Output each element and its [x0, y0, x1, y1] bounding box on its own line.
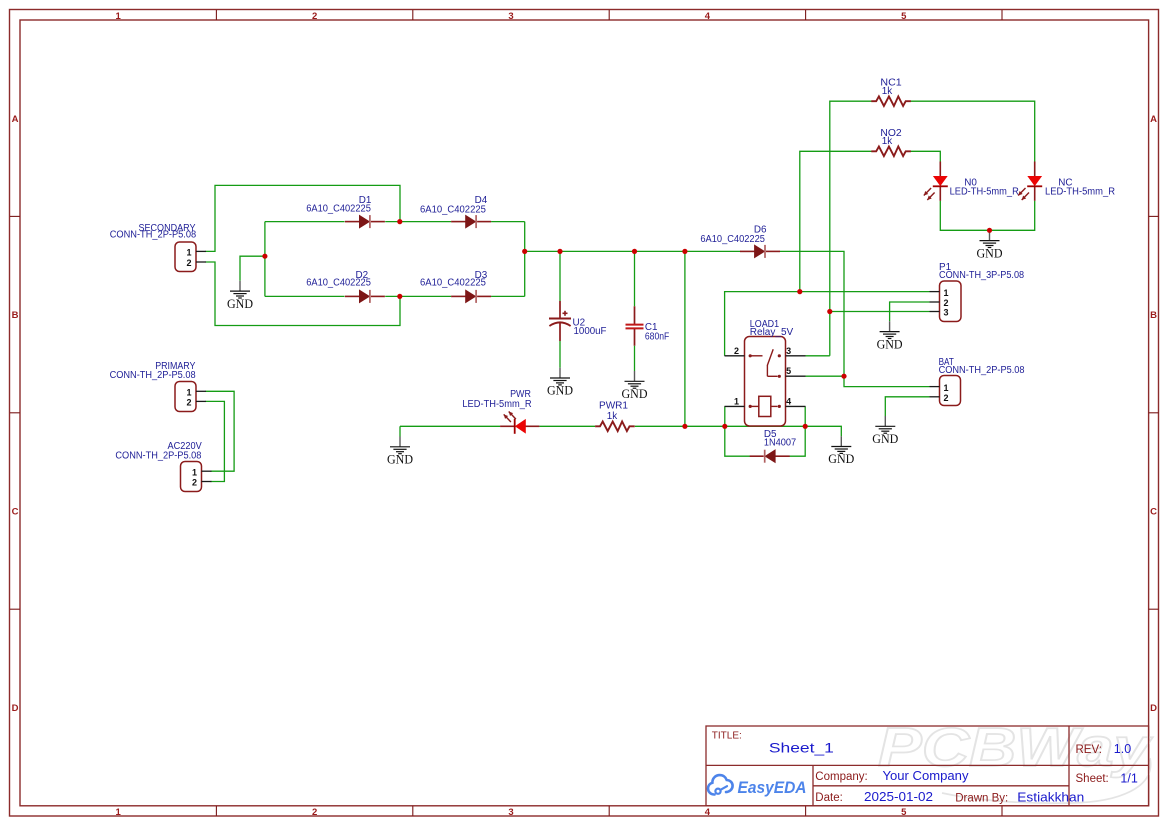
svg-text:C: C — [12, 507, 19, 518]
svg-text:Your Company: Your Company — [883, 769, 970, 783]
svg-text:LED-TH-5mm_R: LED-TH-5mm_R — [950, 187, 1019, 198]
svg-text:B: B — [1150, 310, 1157, 321]
svg-text:1000uF: 1000uF — [574, 326, 607, 337]
svg-text:5: 5 — [786, 366, 791, 376]
svg-text:2: 2 — [186, 258, 191, 268]
svg-text:2: 2 — [943, 298, 948, 308]
svg-text:REV:: REV: — [1076, 744, 1102, 756]
svg-text:GND: GND — [828, 451, 854, 466]
svg-text:1k: 1k — [607, 411, 617, 422]
svg-text:GND: GND — [227, 296, 253, 311]
svg-text:6A10_C402225: 6A10_C402225 — [306, 204, 371, 215]
svg-text:Date:: Date: — [815, 792, 843, 804]
svg-text:1k: 1k — [882, 86, 892, 97]
svg-text:GND: GND — [977, 245, 1003, 260]
svg-text:CONN-TH_2P-P5.08: CONN-TH_2P-P5.08 — [110, 230, 197, 241]
svg-text:D: D — [12, 703, 19, 714]
svg-text:D: D — [1150, 703, 1157, 714]
svg-text:C: C — [1150, 507, 1157, 518]
svg-text:2025-01-02: 2025-01-02 — [864, 790, 933, 804]
svg-text:6A10_C402225: 6A10_C402225 — [420, 205, 486, 216]
svg-text:CONN-TH_3P-P5.08: CONN-TH_3P-P5.08 — [939, 270, 1025, 281]
svg-text:2: 2 — [312, 11, 317, 22]
svg-text:1: 1 — [943, 288, 948, 298]
svg-text:1: 1 — [943, 383, 948, 393]
svg-text:A: A — [12, 114, 19, 125]
svg-text:CONN-TH_2P-P5.08: CONN-TH_2P-P5.08 — [110, 370, 196, 381]
svg-text:CONN-TH_2P-P5.08: CONN-TH_2P-P5.08 — [115, 450, 201, 461]
svg-text:4: 4 — [705, 11, 711, 22]
svg-text:1k: 1k — [882, 136, 892, 147]
svg-text:LED-TH-5mm_R: LED-TH-5mm_R — [462, 399, 531, 410]
svg-text:1N4007: 1N4007 — [764, 437, 796, 448]
svg-text:PWR1: PWR1 — [599, 400, 629, 411]
svg-text:B: B — [12, 310, 19, 321]
svg-text:2: 2 — [192, 478, 197, 488]
svg-text:1: 1 — [116, 807, 122, 818]
svg-text:4: 4 — [705, 807, 711, 818]
svg-text:GND: GND — [547, 383, 573, 398]
svg-text:GND: GND — [622, 386, 648, 401]
svg-text:1: 1 — [192, 467, 197, 477]
svg-text:1: 1 — [116, 11, 122, 22]
svg-text:6A10_C402225: 6A10_C402225 — [700, 234, 765, 245]
svg-text:GND: GND — [872, 431, 898, 446]
svg-text:TITLE:: TITLE: — [712, 731, 742, 742]
svg-text:6A10_C402225: 6A10_C402225 — [306, 278, 371, 289]
svg-text:680nF: 680nF — [645, 332, 669, 343]
svg-text:1: 1 — [734, 396, 739, 406]
svg-text:3: 3 — [508, 11, 513, 22]
svg-text:3: 3 — [786, 346, 791, 356]
svg-text:Sheet_1: Sheet_1 — [769, 741, 834, 756]
svg-text:2: 2 — [943, 393, 948, 403]
svg-text:2: 2 — [312, 807, 317, 818]
svg-text:2: 2 — [734, 346, 739, 356]
svg-text:A: A — [1150, 114, 1157, 125]
svg-text:5: 5 — [901, 807, 907, 818]
svg-text:1/1: 1/1 — [1120, 772, 1137, 786]
svg-text:3: 3 — [943, 308, 948, 318]
svg-text:4: 4 — [786, 396, 791, 406]
svg-text:3: 3 — [508, 807, 513, 818]
svg-text:Sheet:: Sheet: — [1076, 773, 1109, 785]
svg-text:5: 5 — [901, 11, 907, 22]
svg-text:LED-TH-5mm_R: LED-TH-5mm_R — [1045, 187, 1115, 198]
svg-text:GND: GND — [387, 452, 413, 467]
svg-text:1: 1 — [186, 248, 191, 258]
svg-text:1: 1 — [186, 388, 191, 398]
svg-text:2: 2 — [186, 398, 191, 408]
svg-text:1.0: 1.0 — [1114, 742, 1131, 756]
svg-text:Estiakkhan: Estiakkhan — [1017, 790, 1084, 804]
svg-text:Company:: Company: — [815, 771, 867, 783]
svg-text:EasyEDA: EasyEDA — [738, 779, 807, 797]
svg-text:Drawn By:: Drawn By: — [955, 792, 1008, 804]
svg-text:Relay_5V: Relay_5V — [750, 327, 794, 338]
svg-text:CONN-TH_2P-P5.08: CONN-TH_2P-P5.08 — [939, 365, 1025, 376]
svg-text:6A10_C402225: 6A10_C402225 — [420, 278, 486, 289]
svg-text:GND: GND — [877, 336, 903, 351]
